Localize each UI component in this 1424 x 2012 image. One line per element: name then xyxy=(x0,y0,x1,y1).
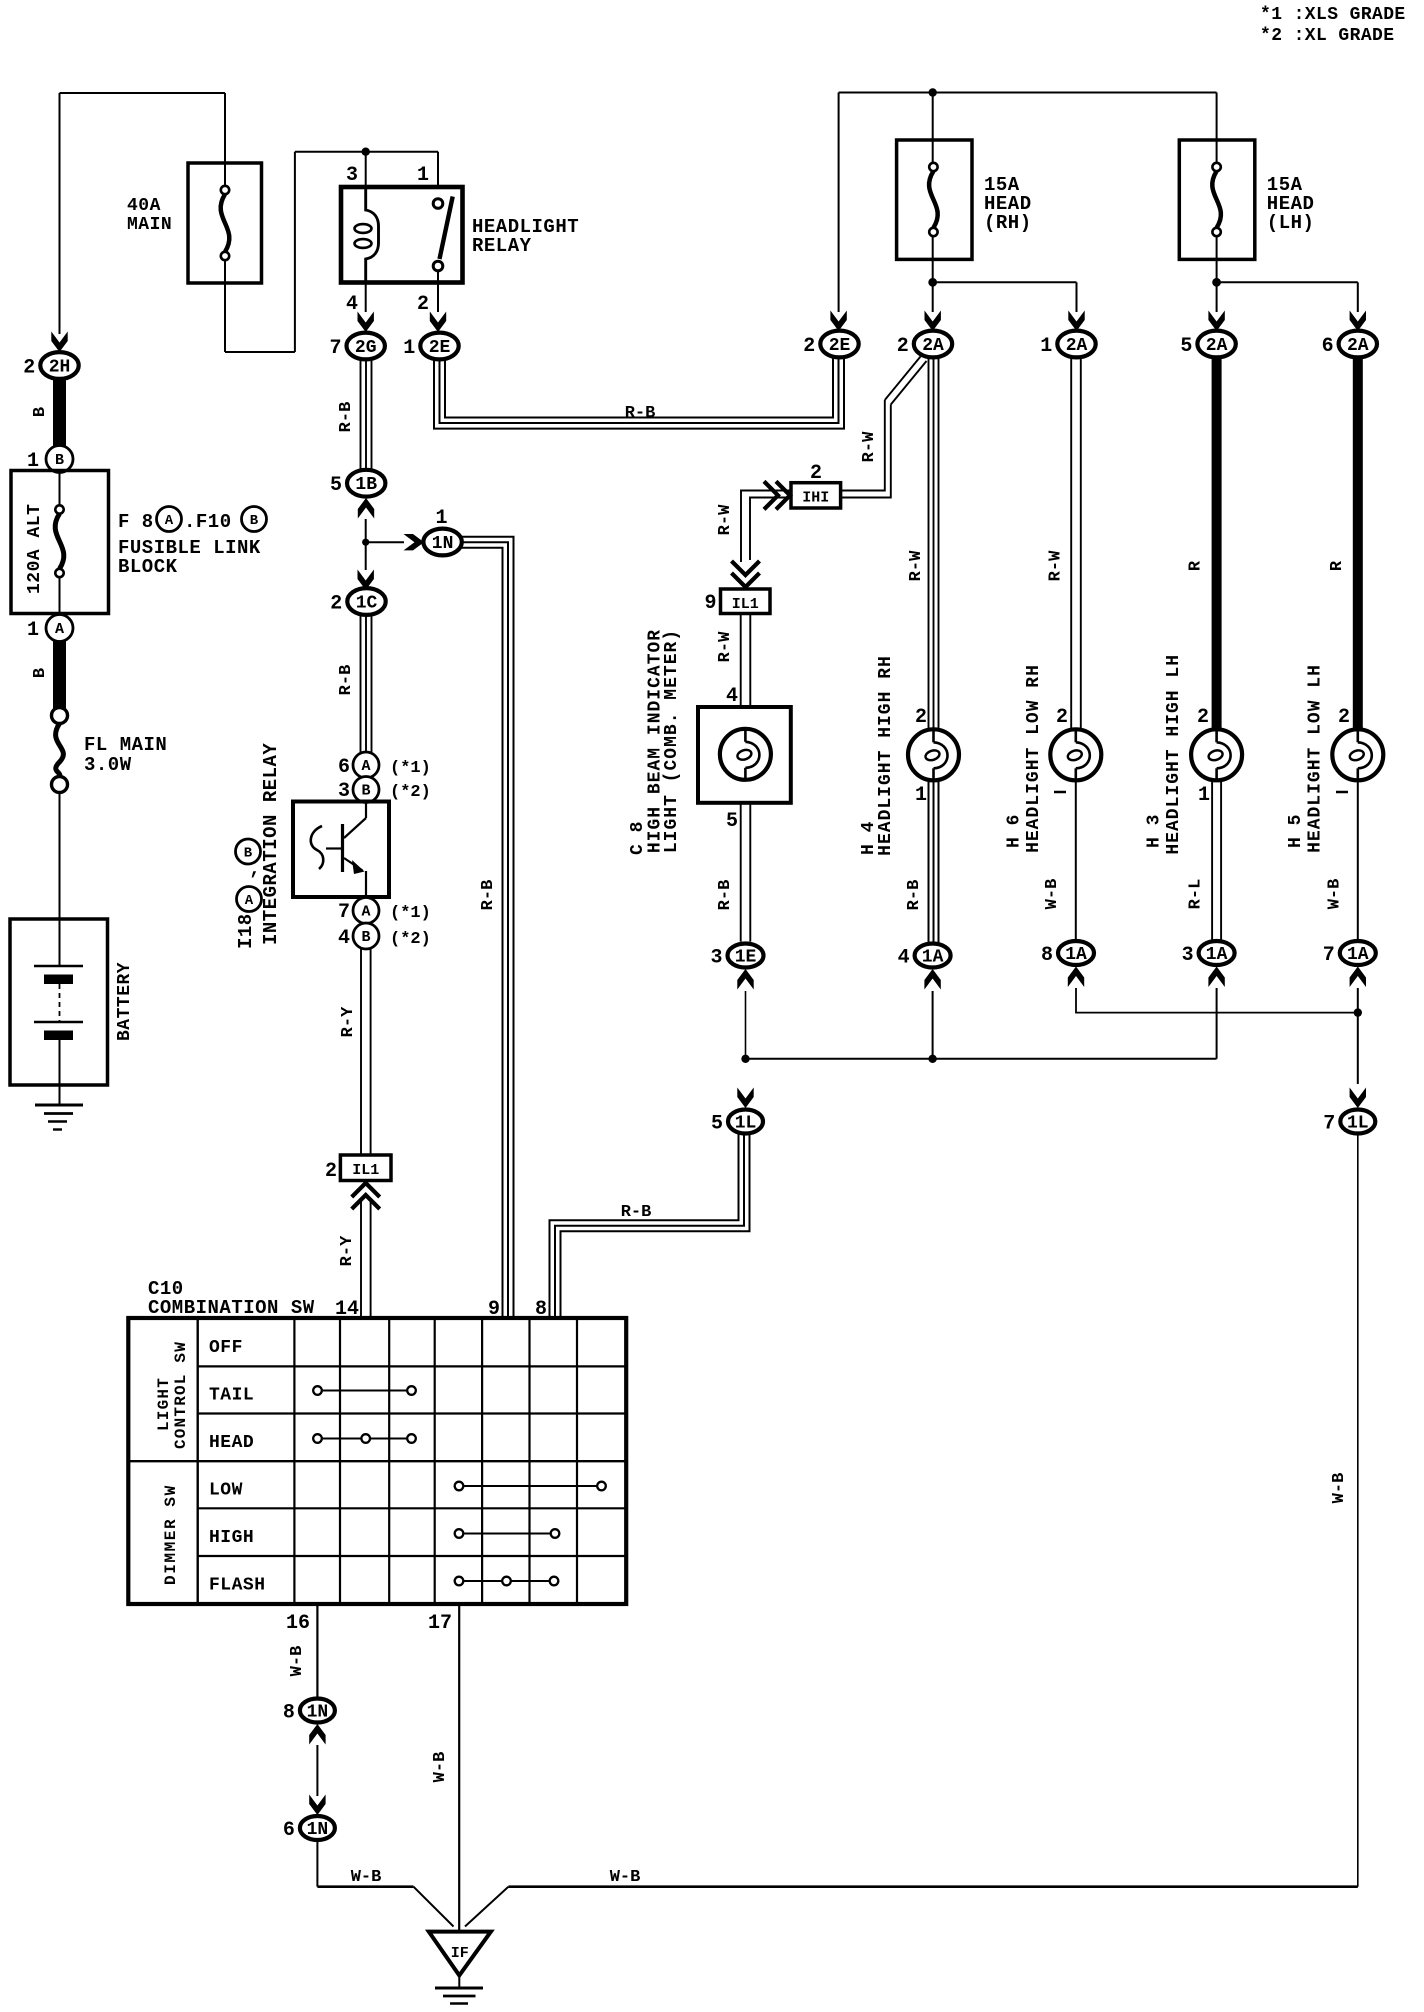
svg-text:B: B xyxy=(55,452,64,469)
svg-text:1B: 1B xyxy=(355,475,377,495)
svg-text:2A: 2A xyxy=(922,336,944,356)
svg-text:2: 2 xyxy=(417,293,429,316)
svg-text:2E: 2E xyxy=(429,338,451,358)
svg-text:1L: 1L xyxy=(735,1114,757,1134)
svg-text:1: 1 xyxy=(403,337,415,360)
svg-text:W-B: W-B xyxy=(1043,879,1062,910)
svg-text:5: 5 xyxy=(711,1113,723,1136)
svg-text:W-B: W-B xyxy=(288,1646,307,1677)
svg-text:5: 5 xyxy=(726,810,738,833)
svg-text:2: 2 xyxy=(1197,706,1209,729)
svg-text:2A: 2A xyxy=(1066,336,1088,356)
svg-text:COMBINATION SW: COMBINATION SW xyxy=(148,1297,315,1319)
svg-text:17: 17 xyxy=(428,1612,452,1635)
svg-text:2G: 2G xyxy=(355,338,377,358)
svg-text:5: 5 xyxy=(330,474,342,497)
svg-text:A: A xyxy=(165,513,174,529)
svg-text:8: 8 xyxy=(283,1702,295,1725)
svg-text:HEAD: HEAD xyxy=(209,1433,254,1453)
svg-text:R-W: R-W xyxy=(1047,550,1066,581)
svg-text:1C: 1C xyxy=(356,594,378,614)
svg-text:HEADLIGHT LOW RH: HEADLIGHT LOW RH xyxy=(1024,664,1044,853)
svg-text:7: 7 xyxy=(329,337,341,360)
svg-text:R-B: R-B xyxy=(625,404,656,423)
svg-text:IL1: IL1 xyxy=(732,596,759,613)
svg-text:IF: IF xyxy=(451,1945,469,1962)
svg-text:9: 9 xyxy=(704,592,716,615)
svg-text:4: 4 xyxy=(726,685,738,708)
svg-text:A: A xyxy=(361,758,370,775)
svg-text:HEADLIGHT HIGH RH: HEADLIGHT HIGH RH xyxy=(876,655,896,856)
svg-text:(RH): (RH) xyxy=(984,212,1032,234)
svg-text:R-B: R-B xyxy=(337,402,356,433)
svg-text:CONTROL SW: CONTROL SW xyxy=(172,1341,190,1449)
svg-text:R-B: R-B xyxy=(905,880,924,911)
svg-text:H 5: H 5 xyxy=(1286,814,1306,848)
svg-text:7: 7 xyxy=(1323,944,1335,967)
svg-text:TAIL: TAIL xyxy=(209,1386,254,1406)
svg-text:(*2): (*2) xyxy=(390,930,431,949)
svg-text:8: 8 xyxy=(1041,944,1053,967)
svg-text:1: 1 xyxy=(417,164,429,187)
svg-text:1A: 1A xyxy=(1347,945,1369,965)
svg-text:2: 2 xyxy=(810,462,822,485)
svg-text:(LH): (LH) xyxy=(1267,212,1315,234)
svg-text:R-W: R-W xyxy=(860,431,879,462)
svg-text:.F10: .F10 xyxy=(184,511,232,533)
svg-text:16: 16 xyxy=(286,1612,310,1635)
svg-text:1E: 1E xyxy=(735,948,757,968)
svg-text:A: A xyxy=(245,893,254,909)
svg-text:*1 :XLS GRADE: *1 :XLS GRADE xyxy=(1260,5,1406,25)
svg-text:FLASH: FLASH xyxy=(209,1576,266,1596)
svg-text:(*2): (*2) xyxy=(390,783,431,802)
svg-text:B: B xyxy=(31,668,50,678)
svg-text:MAIN: MAIN xyxy=(127,215,172,235)
svg-text:1N: 1N xyxy=(307,1820,329,1840)
svg-text:2A: 2A xyxy=(1347,336,1369,356)
svg-text:R-B: R-B xyxy=(621,1203,652,1222)
svg-text:W-B: W-B xyxy=(1330,1473,1349,1504)
svg-text:W-B: W-B xyxy=(610,1868,641,1887)
svg-text:B: B xyxy=(361,783,370,800)
svg-text:(*1): (*1) xyxy=(390,759,431,778)
svg-text:*2 :XL GRADE: *2 :XL GRADE xyxy=(1260,26,1394,46)
svg-text:W-B: W-B xyxy=(1326,879,1345,910)
svg-text:6: 6 xyxy=(338,756,350,779)
svg-text:4: 4 xyxy=(338,927,350,950)
svg-text:B: B xyxy=(361,929,370,946)
svg-text:BATTERY: BATTERY xyxy=(115,962,135,1041)
svg-text:2: 2 xyxy=(23,357,35,380)
svg-text:4: 4 xyxy=(898,947,910,970)
svg-text:H 3: H 3 xyxy=(1145,814,1165,848)
svg-text:(*1): (*1) xyxy=(390,904,431,923)
svg-text:LOW: LOW xyxy=(209,1481,243,1501)
svg-text:DIMMER SW: DIMMER SW xyxy=(162,1484,180,1585)
svg-text:HEADLIGHT LOW LH: HEADLIGHT LOW LH xyxy=(1305,664,1325,853)
svg-text:1A: 1A xyxy=(922,948,944,968)
svg-text:2: 2 xyxy=(1338,706,1350,729)
svg-text:1A: 1A xyxy=(1065,945,1087,965)
svg-text:2H: 2H xyxy=(49,358,71,378)
svg-text:IHI: IHI xyxy=(802,490,829,507)
svg-text:R: R xyxy=(1187,560,1206,571)
svg-text:R-W: R-W xyxy=(716,504,735,535)
svg-text:1L: 1L xyxy=(1347,1114,1369,1134)
svg-text:1N: 1N xyxy=(432,534,454,554)
svg-text:3: 3 xyxy=(710,947,722,970)
svg-text:40A: 40A xyxy=(127,196,161,216)
svg-text:4: 4 xyxy=(346,293,358,316)
svg-text:HIGH: HIGH xyxy=(209,1528,254,1548)
svg-text:R-Y: R-Y xyxy=(339,1006,358,1037)
svg-text:A: A xyxy=(361,904,370,921)
svg-text:LIGHT (COMB. METER): LIGHT (COMB. METER) xyxy=(662,629,682,853)
svg-text:A: A xyxy=(55,621,64,638)
svg-text:R-B: R-B xyxy=(716,880,735,911)
svg-text:R-Y: R-Y xyxy=(338,1235,357,1266)
svg-text:I18: I18 xyxy=(235,913,257,949)
svg-text:W-B: W-B xyxy=(351,1868,382,1887)
svg-text:B: B xyxy=(31,407,50,417)
svg-text:2: 2 xyxy=(325,1160,337,1183)
svg-text:H 6: H 6 xyxy=(1005,814,1025,848)
svg-text:2: 2 xyxy=(1056,706,1068,729)
svg-text:2: 2 xyxy=(915,706,927,729)
svg-text:OFF: OFF xyxy=(209,1338,243,1358)
svg-text:2: 2 xyxy=(803,335,815,358)
svg-text:1A: 1A xyxy=(1206,945,1228,965)
svg-text:R-B: R-B xyxy=(337,665,356,696)
svg-text:1: 1 xyxy=(27,619,39,642)
svg-text:B: B xyxy=(250,513,259,529)
svg-text:120A ALT: 120A ALT xyxy=(25,504,45,594)
svg-text:BLOCK: BLOCK xyxy=(118,556,178,578)
svg-text:3.0W: 3.0W xyxy=(84,754,132,776)
svg-text:6: 6 xyxy=(1322,335,1334,358)
svg-text:IL1: IL1 xyxy=(352,1162,379,1179)
svg-text:W-B: W-B xyxy=(431,1752,450,1783)
svg-text:2E: 2E xyxy=(829,336,851,356)
svg-text:RELAY: RELAY xyxy=(472,235,532,257)
svg-text:R-L: R-L xyxy=(1187,879,1206,910)
svg-text:1N: 1N xyxy=(307,1703,329,1723)
svg-text:FL MAIN: FL MAIN xyxy=(84,734,167,756)
svg-text:R-W: R-W xyxy=(716,631,735,662)
svg-text:2A: 2A xyxy=(1206,336,1228,356)
svg-text:1: 1 xyxy=(915,784,927,807)
svg-text:7: 7 xyxy=(338,901,350,924)
svg-text:3: 3 xyxy=(346,164,358,187)
svg-text:INTEGRATION RELAY: INTEGRATION RELAY xyxy=(260,743,282,945)
svg-text:R: R xyxy=(1328,560,1347,571)
svg-text:3: 3 xyxy=(1182,944,1194,967)
svg-text:B: B xyxy=(244,846,253,862)
svg-text:HEADLIGHT HIGH LH: HEADLIGHT HIGH LH xyxy=(1164,654,1184,855)
svg-text:1: 1 xyxy=(1198,784,1210,807)
svg-text:6: 6 xyxy=(283,1819,295,1842)
svg-text:1: 1 xyxy=(1040,335,1052,358)
svg-text:5: 5 xyxy=(1180,335,1192,358)
svg-text:2: 2 xyxy=(330,593,342,616)
svg-text:F 8: F 8 xyxy=(118,511,154,533)
svg-text:1: 1 xyxy=(435,507,447,530)
svg-text:LIGHT: LIGHT xyxy=(155,1377,173,1431)
svg-text:R-B: R-B xyxy=(479,880,498,911)
svg-text:2: 2 xyxy=(897,335,909,358)
svg-text:7: 7 xyxy=(1323,1113,1335,1136)
svg-text:R-W: R-W xyxy=(907,550,926,581)
